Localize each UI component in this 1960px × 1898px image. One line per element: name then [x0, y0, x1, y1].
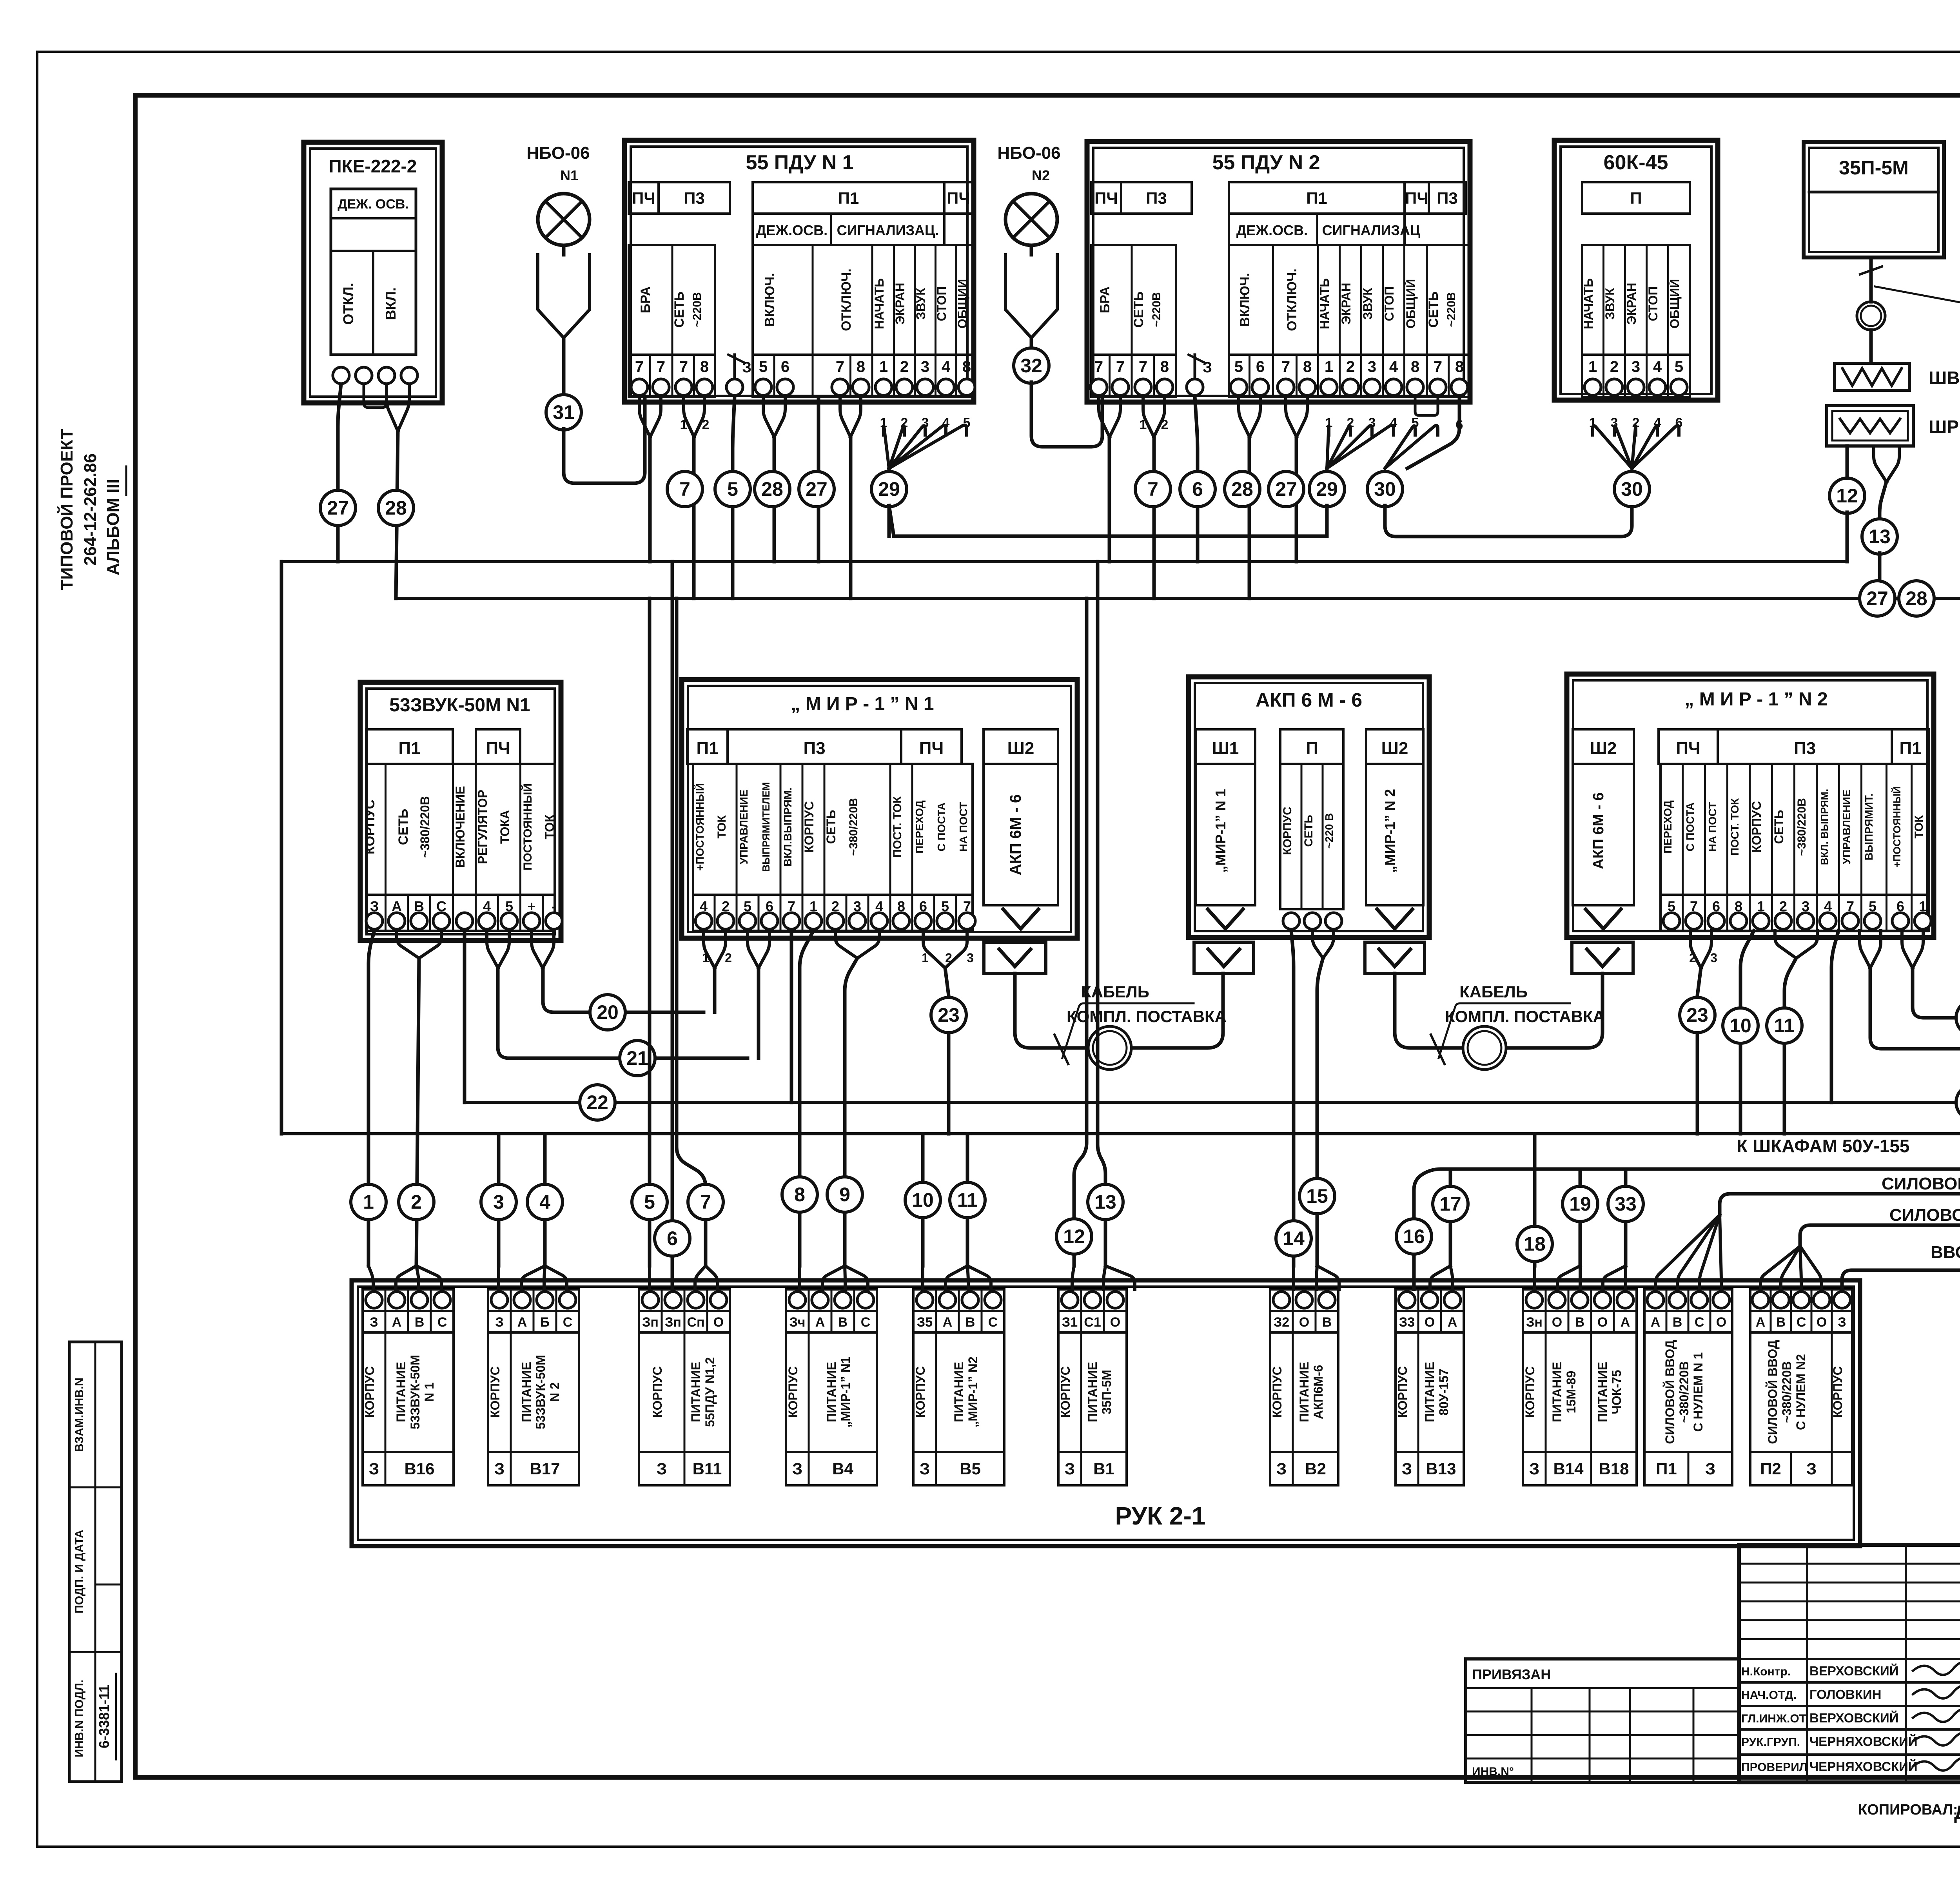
svg-text:О: О [1716, 1315, 1726, 1330]
svg-text:ВЕРХОВСКИЙ: ВЕРХОВСКИЙ [1809, 1710, 1898, 1725]
svg-text:ПИТАНИЕ: ПИТАНИЕ [1550, 1362, 1564, 1422]
svg-text:З: З [920, 1459, 930, 1478]
svg-text:КОРПУС: КОРПУС [1396, 1366, 1410, 1418]
svg-text:А: А [1621, 1315, 1630, 1330]
svg-text:НБО-06: НБО-06 [526, 143, 590, 163]
svg-text:23: 23 [1686, 1004, 1708, 1026]
svg-text:ОБЩИЙ: ОБЩИЙ [955, 279, 969, 329]
svg-text:З3: З3 [1399, 1315, 1415, 1330]
svg-text:СТОП: СТОП [1646, 286, 1660, 321]
svg-text:П2: П2 [1760, 1459, 1781, 1478]
svg-text:Ш2: Ш2 [1007, 739, 1034, 758]
svg-text:СИГНАЛИЗАЦ: СИГНАЛИЗАЦ [1322, 222, 1421, 238]
svg-text:7: 7 [1139, 358, 1147, 375]
svg-text:З5: З5 [917, 1315, 933, 1330]
svg-text:БРА: БРА [1098, 286, 1112, 314]
svg-text:С: С [988, 1315, 998, 1330]
svg-text:32: 32 [1020, 355, 1042, 377]
svg-text:КОМПЛ. ПОСТАВКА: КОМПЛ. ПОСТАВКА [1445, 1007, 1605, 1026]
svg-text:РЕГУЛЯТОР: РЕГУЛЯТОР [475, 790, 490, 864]
svg-text:РУК.ГРУП.: РУК.ГРУП. [1741, 1736, 1800, 1749]
svg-text:ШВ: ШВ [1929, 368, 1960, 388]
svg-text:29: 29 [878, 478, 900, 500]
svg-text:~380/220В: ~380/220В [847, 798, 860, 856]
svg-text:N1: N1 [560, 167, 578, 183]
svg-text:~380/220В: ~380/220В [1795, 798, 1808, 856]
svg-text:3: 3 [967, 951, 974, 965]
svg-text:НА ПОСТ: НА ПОСТ [957, 802, 969, 852]
svg-text:З: З [1203, 359, 1212, 376]
svg-text:7: 7 [700, 1191, 711, 1213]
svg-text:ПИТАНИЕ: ПИТАНИЕ [1297, 1362, 1311, 1422]
svg-text:КОРПУС: КОРПУС [363, 799, 377, 854]
svg-text:ПИТАНИЕ: ПИТАНИЕ [824, 1362, 838, 1422]
svg-text:П: П [1306, 739, 1318, 758]
svg-text:Н.Контр.: Н.Контр. [1741, 1665, 1791, 1678]
svg-text:СИЛОВОЙ ВВОД: СИЛОВОЙ ВВОД [1766, 1340, 1780, 1444]
svg-text:УПРАВЛЕНИЕ: УПРАВЛЕНИЕ [738, 790, 750, 865]
svg-text:А: А [1448, 1315, 1457, 1330]
svg-text:13: 13 [1094, 1191, 1116, 1213]
svg-text:ПЧ: ПЧ [486, 739, 510, 758]
svg-text:ДЕЖ.ОСВ.: ДЕЖ.ОСВ. [756, 222, 828, 238]
svg-text:С: С [563, 1315, 573, 1330]
svg-text:З: З [369, 1459, 379, 1478]
svg-text:СТОП: СТОП [1382, 286, 1396, 321]
svg-text:1: 1 [922, 951, 929, 965]
svg-text:80У-157: 80У-157 [1437, 1369, 1451, 1416]
svg-text:ГЛ.ИНЖ.ОТ: ГЛ.ИНЖ.ОТ [1741, 1712, 1806, 1725]
svg-text:ПЧ: ПЧ [947, 189, 970, 207]
svg-text:4: 4 [1653, 358, 1662, 375]
svg-text:ТИПОВОЙ ПРОЕКТ: ТИПОВОЙ ПРОЕКТ [56, 429, 76, 590]
svg-text:П3: П3 [684, 189, 705, 207]
svg-text:Б: Б [540, 1315, 550, 1330]
svg-text:А: А [1651, 1315, 1661, 1330]
svg-text:СЕТЬ: СЕТЬ [1131, 292, 1146, 328]
svg-text:С НУЛЕМ N2: С НУЛЕМ N2 [1794, 1354, 1808, 1430]
svg-text:Ш1: Ш1 [1212, 739, 1239, 758]
svg-text:П1: П1 [838, 189, 859, 207]
svg-text:СЕТЬ: СЕТЬ [1302, 815, 1315, 847]
svg-text:Сп: Сп [687, 1315, 704, 1330]
svg-text:З: З [1276, 1459, 1287, 1478]
svg-text:1: 1 [702, 951, 709, 965]
svg-text:30: 30 [1374, 478, 1396, 500]
svg-text:СЕТЬ: СЕТЬ [1426, 292, 1441, 328]
svg-text:З: З [1838, 1315, 1846, 1330]
svg-text:35П-5М: 35П-5М [1100, 1370, 1114, 1414]
svg-text:ВВОД ОТ ЗАЗЕМЛИТЕЛЯ: ВВОД ОТ ЗАЗЕМЛИТЕЛЯ [1931, 1243, 1960, 1262]
svg-text:К ШКАФАМ 50У-155: К ШКАФАМ 50У-155 [1737, 1136, 1910, 1156]
svg-text:28: 28 [761, 478, 783, 500]
svg-text:З: З [494, 1459, 505, 1478]
svg-text:В: В [415, 1315, 425, 1330]
svg-text:7: 7 [836, 358, 844, 375]
svg-text:8: 8 [1303, 358, 1312, 375]
svg-text:В: В [1776, 1315, 1786, 1330]
svg-text:В13: В13 [1426, 1459, 1456, 1478]
svg-text:10: 10 [912, 1189, 934, 1211]
svg-text:7: 7 [657, 358, 665, 375]
svg-text:12: 12 [1063, 1225, 1085, 1247]
svg-text:ЧЕРНЯХОВСКИЙ: ЧЕРНЯХОВСКИЙ [1809, 1759, 1918, 1774]
svg-text:ПРОВЕРИЛ: ПРОВЕРИЛ [1741, 1761, 1808, 1774]
svg-text:6: 6 [1256, 358, 1265, 375]
svg-text:С: С [861, 1315, 871, 1330]
svg-text:З: З [657, 1459, 667, 1478]
svg-text:СИГНАЛИЗАЦ.: СИГНАЛИЗАЦ. [837, 222, 939, 238]
svg-text:6: 6 [781, 358, 789, 375]
svg-text:7: 7 [1281, 358, 1290, 375]
svg-text:„ М И Р - 1 ” N 2: „ М И Р - 1 ” N 2 [1684, 689, 1828, 710]
svg-text:В16: В16 [404, 1459, 434, 1478]
svg-text:З: З [495, 1315, 503, 1330]
svg-text:„МИР-1” N 1: „МИР-1” N 1 [1212, 789, 1229, 873]
svg-text:ВКЛЮЧЕНИЕ: ВКЛЮЧЕНИЕ [453, 786, 467, 868]
svg-text:29: 29 [1316, 478, 1338, 500]
svg-text:2: 2 [1610, 358, 1619, 375]
svg-text:3: 3 [1710, 951, 1717, 965]
svg-text:12: 12 [1836, 485, 1858, 507]
svg-text:8: 8 [794, 1184, 805, 1206]
svg-text:53ЗВУК-50М: 53ЗВУК-50М [534, 1355, 548, 1429]
svg-text:ДЕЖ.ОСВ.: ДЕЖ.ОСВ. [1236, 222, 1308, 238]
svg-text:А: А [815, 1315, 825, 1330]
svg-text:НАЧ.ОТД.: НАЧ.ОТД. [1741, 1689, 1797, 1702]
svg-text:ЭКРАН: ЭКРАН [1624, 283, 1639, 324]
svg-text:7: 7 [679, 478, 690, 500]
svg-text:О: О [1597, 1315, 1608, 1330]
svg-text:А: А [1756, 1315, 1766, 1330]
svg-text:О: О [1817, 1315, 1827, 1330]
svg-text:55 ПДУ N 2: 55 ПДУ N 2 [1212, 151, 1320, 174]
svg-text:СЕТЬ: СЕТЬ [672, 292, 687, 328]
svg-text:КОРПУС: КОРПУС [913, 1366, 927, 1418]
svg-text:N2: N2 [1032, 167, 1050, 183]
svg-text:СЕТЬ: СЕТЬ [824, 810, 838, 844]
svg-text:АЛЬБОМ III: АЛЬБОМ III [103, 479, 123, 575]
svg-text:8: 8 [1411, 358, 1419, 375]
svg-text:28: 28 [1231, 478, 1253, 500]
svg-text:В: В [1322, 1315, 1332, 1330]
svg-text:НАЧАТЬ: НАЧАТЬ [872, 278, 886, 329]
svg-text:КОРПУС: КОРПУС [1749, 801, 1764, 853]
svg-text:8: 8 [1160, 358, 1169, 375]
svg-text:В: В [965, 1315, 975, 1330]
svg-text:17: 17 [1439, 1193, 1461, 1215]
svg-text:ЭКРАН: ЭКРАН [893, 283, 907, 324]
svg-text:ПОСТ. ТОК: ПОСТ. ТОК [1729, 798, 1741, 856]
svg-text:~220В: ~220В [1445, 292, 1458, 327]
svg-text:ВКЛЮЧ.: ВКЛЮЧ. [762, 273, 777, 326]
svg-text:П3: П3 [803, 739, 825, 758]
svg-text:З: З [1529, 1459, 1539, 1478]
svg-text:ТОКА: ТОКА [498, 810, 512, 844]
svg-text:П3: П3 [1437, 189, 1458, 207]
svg-text:~380/220В: ~380/220В [1677, 1361, 1691, 1423]
svg-text:7: 7 [1147, 478, 1158, 500]
svg-text:3: 3 [1632, 358, 1640, 375]
svg-text:4: 4 [1389, 358, 1398, 375]
svg-text:8: 8 [962, 358, 971, 375]
svg-text:З: З [1705, 1459, 1715, 1478]
svg-text:35П-5М: 35П-5М [1839, 157, 1909, 179]
svg-text:Зч: Зч [789, 1315, 805, 1330]
svg-text:ОБЩИЙ: ОБЩИЙ [1668, 279, 1682, 329]
svg-text:ПРИВЯЗАН: ПРИВЯЗАН [1472, 1666, 1551, 1682]
svg-text:+ПОСТОЯННЫЙ: +ПОСТОЯННЫЙ [693, 783, 706, 871]
svg-text:СЕТЬ: СЕТЬ [396, 809, 411, 845]
svg-text:N 1: N 1 [422, 1382, 436, 1402]
svg-text:ТОК: ТОК [715, 815, 728, 839]
svg-text:В: В [1673, 1315, 1682, 1330]
svg-text:ПИТАНИЕ: ПИТАНИЕ [1595, 1362, 1610, 1422]
svg-text:О: О [1110, 1315, 1120, 1330]
svg-text:УПРАВЛЕНИЕ: УПРАВЛЕНИЕ [1840, 790, 1853, 865]
svg-text:ПКЕ-222-2: ПКЕ-222-2 [329, 156, 417, 176]
svg-text:О: О [713, 1315, 724, 1330]
svg-text:ВЕРХОВСКИЙ: ВЕРХОВСКИЙ [1809, 1663, 1898, 1678]
svg-text:ПОСТОЯННЫЙ: ПОСТОЯННЫЙ [521, 783, 534, 870]
svg-text:ПЧ: ПЧ [1094, 189, 1118, 207]
svg-text:АКП 6М - 6: АКП 6М - 6 [1590, 792, 1607, 869]
svg-text:3: 3 [921, 358, 929, 375]
svg-text:ПИТАНИЕ: ПИТАНИЕ [689, 1362, 703, 1422]
svg-text:1: 1 [1325, 358, 1333, 375]
svg-text:КОПИРОВАЛ:: КОПИРОВАЛ: [1858, 1802, 1958, 1818]
svg-text:С1: С1 [1084, 1315, 1101, 1330]
svg-text:ИНВ.N ПОДЛ.: ИНВ.N ПОДЛ. [73, 1680, 86, 1758]
svg-text:КОРПУС: КОРПУС [363, 1366, 377, 1418]
svg-text:С: С [437, 1315, 447, 1330]
svg-text:27: 27 [1866, 587, 1888, 609]
svg-text:11: 11 [957, 1189, 978, 1211]
svg-text:1: 1 [363, 1191, 374, 1213]
svg-text:П1: П1 [696, 739, 718, 758]
svg-text:60К-45: 60К-45 [1604, 151, 1668, 174]
svg-text:4: 4 [942, 358, 951, 375]
svg-text:~220В: ~220В [691, 292, 704, 327]
svg-text:ОТКЛЮЧ.: ОТКЛЮЧ. [839, 268, 854, 331]
svg-text:7: 7 [1434, 358, 1442, 375]
svg-text:АКП 6М - 6: АКП 6М - 6 [1007, 794, 1024, 876]
svg-text:~380/220В: ~380/220В [1780, 1361, 1794, 1423]
svg-text:КОРПУС: КОРПУС [1831, 1366, 1845, 1418]
svg-text:4: 4 [539, 1191, 550, 1213]
svg-text:КОРПУС: КОРПУС [488, 1366, 502, 1418]
svg-text:О: О [1425, 1315, 1435, 1330]
svg-text:КОРПУС: КОРПУС [786, 1366, 800, 1418]
svg-text:3: 3 [1368, 358, 1376, 375]
svg-text:ЧЕРНЯХОВСКИЙ: ЧЕРНЯХОВСКИЙ [1809, 1734, 1918, 1749]
svg-text:П1: П1 [1656, 1459, 1677, 1478]
svg-text:З2: З2 [1274, 1315, 1289, 1330]
svg-text:ВКЛЮЧ.: ВКЛЮЧ. [1238, 273, 1252, 326]
svg-text:13: 13 [1869, 526, 1891, 547]
svg-text:23: 23 [938, 1004, 960, 1026]
svg-text:„МИР-1” N1: „МИР-1” N1 [838, 1356, 853, 1427]
svg-text:КОРПУС: КОРПУС [1058, 1366, 1073, 1418]
svg-text:7: 7 [1094, 358, 1103, 375]
svg-text:7: 7 [679, 358, 688, 375]
svg-text:В2: В2 [1305, 1459, 1326, 1478]
svg-text:П3: П3 [1146, 189, 1167, 207]
svg-text:БРА: БРА [638, 286, 653, 314]
svg-text:Ш2: Ш2 [1590, 739, 1617, 758]
svg-text:33: 33 [1615, 1193, 1637, 1215]
svg-text:ВЫПРЯМИТЕЛЕМ: ВЫПРЯМИТЕЛЕМ [760, 782, 772, 872]
svg-text:ПЕРЕХОД: ПЕРЕХОД [1662, 800, 1674, 854]
svg-text:2: 2 [945, 951, 952, 965]
svg-text:Ш2: Ш2 [1381, 739, 1408, 758]
svg-text:2: 2 [725, 951, 732, 965]
svg-text:ОТКЛ.: ОТКЛ. [340, 283, 356, 324]
svg-text:7: 7 [1116, 358, 1125, 375]
svg-text:3: 3 [493, 1191, 504, 1213]
svg-text:11: 11 [1774, 1015, 1795, 1037]
svg-text:О: О [1552, 1315, 1562, 1330]
svg-text:В1: В1 [1093, 1459, 1114, 1478]
svg-text:ПЧ: ПЧ [1405, 189, 1428, 207]
svg-text:~220В: ~220В [1150, 292, 1163, 327]
svg-text:27: 27 [327, 497, 349, 519]
svg-text:КОРПУС: КОРПУС [802, 801, 816, 853]
svg-text:КОРПУС: КОРПУС [1281, 807, 1294, 855]
svg-text:30: 30 [1621, 478, 1643, 500]
svg-text:В14: В14 [1553, 1459, 1584, 1478]
svg-text:ГОЛОВКИН: ГОЛОВКИН [1809, 1687, 1881, 1702]
svg-text:15М-89: 15М-89 [1564, 1371, 1578, 1414]
svg-text:В: В [838, 1315, 848, 1330]
svg-text:ТОК: ТОК [1913, 815, 1926, 839]
svg-text:КОРПУС: КОРПУС [1523, 1366, 1537, 1418]
svg-text:10: 10 [1730, 1015, 1751, 1037]
svg-text:СЕТЬ: СЕТЬ [1772, 810, 1786, 844]
svg-text:ПЧ: ПЧ [1676, 739, 1700, 758]
svg-text:П3: П3 [1794, 739, 1816, 758]
svg-text:ТОК: ТОК [543, 814, 557, 839]
svg-text:ВЫПРЯМИТ.: ВЫПРЯМИТ. [1863, 793, 1875, 860]
svg-text:ОБЩИЙ: ОБЩИЙ [1404, 279, 1418, 329]
svg-text:31: 31 [553, 401, 575, 423]
svg-text:ЗВУК: ЗВУК [1603, 288, 1617, 320]
svg-text:ЗВУК: ЗВУК [914, 288, 928, 320]
svg-text:Зп: Зп [642, 1315, 659, 1330]
svg-text:В18: В18 [1599, 1459, 1629, 1478]
svg-text:СТОП: СТОП [935, 286, 949, 321]
svg-text:НАЧАТЬ: НАЧАТЬ [1581, 278, 1595, 329]
svg-text:КАБЕЛЬ: КАБЕЛЬ [1459, 983, 1528, 1001]
svg-text:АКП 6 М - 6: АКП 6 М - 6 [1256, 689, 1362, 711]
svg-text:2: 2 [900, 358, 909, 375]
svg-text:6: 6 [667, 1227, 678, 1249]
svg-text:З: З [1065, 1459, 1075, 1478]
svg-text:16: 16 [1403, 1225, 1425, 1247]
svg-text:НБО-06: НБО-06 [997, 143, 1060, 163]
svg-text:НА ПОСТ: НА ПОСТ [1706, 802, 1719, 852]
svg-text:ПИТАНИЕ: ПИТАНИЕ [1423, 1362, 1437, 1422]
svg-text:9: 9 [839, 1184, 850, 1206]
svg-text:14: 14 [1283, 1227, 1305, 1249]
svg-text:53ЗВУК-50М N1: 53ЗВУК-50М N1 [389, 695, 530, 716]
svg-text:А: А [943, 1315, 953, 1330]
svg-text:ЧОК-75: ЧОК-75 [1610, 1370, 1624, 1414]
svg-text:5: 5 [644, 1191, 655, 1213]
svg-text:Зп: Зп [665, 1315, 681, 1330]
svg-text:ВЗАМ.ИНВ.N: ВЗАМ.ИНВ.N [73, 1378, 86, 1452]
svg-text:АКП6М-6: АКП6М-6 [1311, 1365, 1325, 1419]
svg-text:ИНВ.N°: ИНВ.N° [1472, 1765, 1514, 1778]
svg-text:„МИР-1” N 2: „МИР-1” N 2 [1382, 789, 1398, 873]
svg-text:А: А [517, 1315, 527, 1330]
svg-text:З: З [792, 1459, 802, 1478]
svg-text:6: 6 [1192, 478, 1203, 500]
svg-text:55 ПДУ N 1: 55 ПДУ N 1 [746, 151, 853, 174]
svg-text:ПЧ: ПЧ [919, 739, 944, 758]
svg-text:СИЛОВОЙ ВВОД: СИЛОВОЙ ВВОД [1663, 1340, 1677, 1444]
svg-text:РУК 2-1: РУК 2-1 [1115, 1502, 1206, 1530]
svg-text:С: С [1695, 1315, 1704, 1330]
svg-text:КОМПЛ. ПОСТАВКА: КОМПЛ. ПОСТАВКА [1067, 1007, 1227, 1026]
svg-text:18: 18 [1524, 1233, 1546, 1255]
svg-text:СИЛОВОЙ ВВОД ~380/220В N 2: СИЛОВОЙ ВВОД ~380/220В N 2 [1889, 1205, 1960, 1225]
svg-text:2: 2 [411, 1191, 422, 1213]
svg-text:8: 8 [1455, 358, 1464, 375]
svg-text:7: 7 [635, 358, 644, 375]
svg-text:15: 15 [1306, 1185, 1328, 1207]
svg-text:Зн: Зн [1526, 1315, 1543, 1330]
svg-text:27: 27 [806, 478, 828, 500]
svg-text:8: 8 [857, 358, 865, 375]
svg-text:ВКЛ.ВЫПРЯМ.: ВКЛ.ВЫПРЯМ. [782, 787, 794, 867]
svg-text:А: А [392, 1315, 402, 1330]
svg-text:С ПОСТА: С ПОСТА [1684, 803, 1696, 852]
svg-text:П: П [1630, 189, 1642, 207]
svg-text:N 2: N 2 [548, 1382, 562, 1402]
svg-text:53ЗВУК-50М: 53ЗВУК-50М [408, 1355, 422, 1429]
svg-text:П1: П1 [1306, 189, 1327, 207]
svg-text:З: З [1402, 1459, 1412, 1478]
svg-text:1: 1 [879, 358, 888, 375]
svg-text:~220 В: ~220 В [1323, 813, 1335, 848]
svg-text:ЗВУК: ЗВУК [1361, 288, 1375, 320]
svg-text:СИЛОВОЙ ВВОД ~ 380/220В N: СИЛОВОЙ ВВОД ~ 380/220В N 1 [1882, 1173, 1960, 1193]
svg-text:ПЧ: ПЧ [632, 189, 655, 207]
svg-text:ПИТАНИЕ: ПИТАНИЕ [519, 1362, 534, 1422]
svg-text:+ПОСТОЯННЫЙ: +ПОСТОЯННЫЙ [1891, 786, 1903, 868]
svg-text:2: 2 [1689, 951, 1696, 965]
svg-text:27: 27 [1275, 478, 1297, 500]
svg-text:55ПДУ N1,2: 55ПДУ N1,2 [703, 1357, 717, 1427]
svg-text:КАБЕЛЬ: КАБЕЛЬ [1081, 983, 1149, 1001]
svg-text:2: 2 [1346, 358, 1355, 375]
svg-text:„ М И Р - 1 ” N 1: „ М И Р - 1 ” N 1 [791, 694, 934, 714]
svg-text:В11: В11 [693, 1459, 722, 1478]
svg-text:20: 20 [597, 1001, 619, 1023]
svg-text:З: З [1806, 1459, 1817, 1478]
svg-text:З: З [742, 359, 751, 376]
svg-text:В17: В17 [530, 1459, 560, 1478]
svg-text:5: 5 [1234, 358, 1243, 375]
svg-text:5: 5 [727, 478, 738, 500]
svg-text:28: 28 [1906, 587, 1927, 609]
svg-text:З: З [370, 1315, 378, 1330]
svg-text:П1: П1 [1899, 739, 1921, 758]
svg-text:ЭКРАН: ЭКРАН [1339, 283, 1353, 324]
svg-text:19: 19 [1569, 1193, 1591, 1215]
svg-text:6-3381-11: 6-3381-11 [96, 1685, 112, 1748]
